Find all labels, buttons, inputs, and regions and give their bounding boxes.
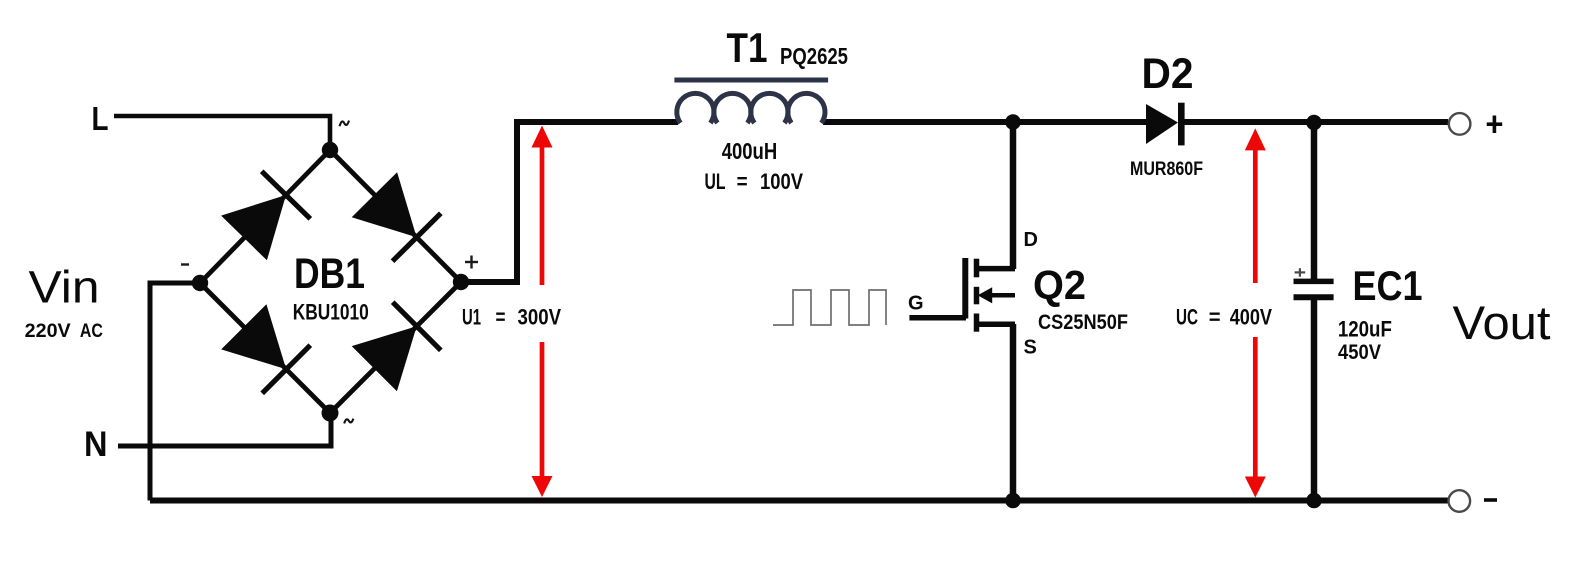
svg-text:G: G <box>908 293 924 315</box>
svg-text:U1: U1 <box>462 305 481 330</box>
svg-text:T1: T1 <box>727 24 768 71</box>
svg-text:Q2: Q2 <box>1033 262 1086 308</box>
svg-text:D: D <box>1024 229 1038 251</box>
svg-text:UL: UL <box>705 169 726 194</box>
svg-text:D2: D2 <box>1142 50 1194 98</box>
svg-text:UC: UC <box>1176 305 1198 330</box>
svg-text:220V: 220V <box>25 321 71 342</box>
svg-text:MUR860F: MUR860F <box>1130 159 1203 180</box>
svg-text:CS25N50F: CS25N50F <box>1038 311 1128 334</box>
svg-text:100V: 100V <box>760 169 803 194</box>
svg-text:120uF: 120uF <box>1338 317 1392 342</box>
svg-text:400V: 400V <box>1230 305 1273 330</box>
svg-text:KBU1010: KBU1010 <box>293 299 369 324</box>
svg-text:=: = <box>1209 305 1221 330</box>
svg-text:N: N <box>84 425 108 464</box>
svg-text:400uH: 400uH <box>722 138 778 164</box>
svg-text:=: = <box>496 305 506 330</box>
svg-text:Vin: Vin <box>29 262 100 313</box>
svg-text:EC1: EC1 <box>1353 262 1423 309</box>
svg-text:AC: AC <box>80 321 103 342</box>
svg-text:=: = <box>737 169 748 194</box>
svg-text:300V: 300V <box>518 305 562 330</box>
svg-text:S: S <box>1024 336 1037 358</box>
svg-text:PQ2625: PQ2625 <box>780 43 848 69</box>
svg-text:DB1: DB1 <box>294 250 365 298</box>
svg-text:Vout: Vout <box>1453 296 1551 349</box>
svg-text:450V: 450V <box>1338 341 1381 364</box>
svg-text:L: L <box>92 100 109 137</box>
